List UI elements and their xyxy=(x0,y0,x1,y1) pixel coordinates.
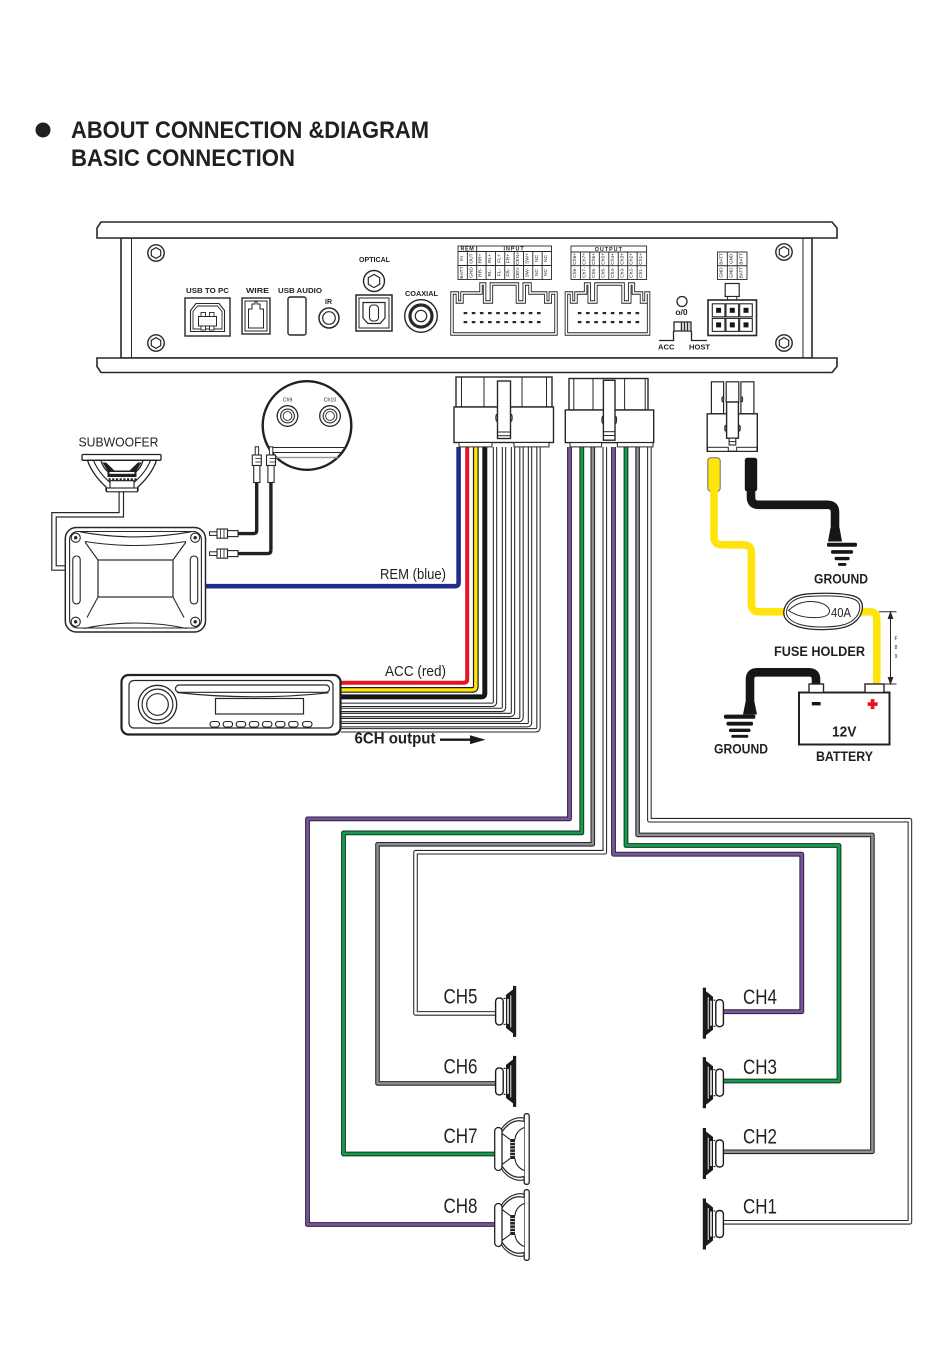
svg-text:Ch7+: Ch7+ xyxy=(582,253,588,265)
svg-text:BATT: BATT xyxy=(719,253,724,265)
wire 6ch white 6 xyxy=(341,447,539,730)
svg-text:IN: IN xyxy=(459,256,465,261)
wire speaker CH1 white xyxy=(649,447,910,1222)
wire speaker CH4 purple xyxy=(614,447,802,1012)
svg-text:Ch6-: Ch6- xyxy=(591,267,597,278)
svg-text:Ch9: Ch9 xyxy=(283,398,293,404)
amplifier body xyxy=(121,238,812,358)
svg-text:REM (blue): REM (blue) xyxy=(380,566,446,583)
yellow wire fuse to battery xyxy=(857,612,877,686)
svg-text:ACC: ACC xyxy=(658,343,675,352)
svg-text:12V: 12V xyxy=(832,724,857,741)
svg-text:CH2: CH2 xyxy=(743,1126,777,1149)
svg-text:Ch4-: Ch4- xyxy=(610,267,616,278)
screw bottom-right xyxy=(776,335,792,351)
wire speaker CH6 gray xyxy=(378,447,593,1083)
svg-text:RL-: RL- xyxy=(487,268,493,276)
wire 6ch white 1 xyxy=(341,447,495,705)
svg-text:Ch10: Ch10 xyxy=(324,398,337,404)
svg-text:SW+: SW+ xyxy=(524,253,530,264)
speaker CH1 xyxy=(703,1199,724,1250)
svg-text:BASIC CONNECTION: BASIC CONNECTION xyxy=(71,145,295,172)
svg-text:BATTERY: BATTERY xyxy=(816,749,873,764)
black wire to right ground xyxy=(751,490,835,529)
svg-text:RR-: RR- xyxy=(478,268,484,277)
svg-text:USB AUDIO: USB AUDIO xyxy=(278,288,323,295)
wire speaker CH5 white xyxy=(416,447,605,1013)
svg-text:40A: 40A xyxy=(831,605,851,620)
svg-text:CH4: CH4 xyxy=(743,986,777,1009)
svg-text:Ch8-: Ch8- xyxy=(572,267,578,278)
svg-text:FR+: FR+ xyxy=(506,254,512,264)
svg-text:6CH output: 6CH output xyxy=(355,731,436,748)
svg-text:USB TO PC: USB TO PC xyxy=(186,288,229,295)
black wire to left ground xyxy=(750,672,816,703)
wire 6ch white 5 xyxy=(341,447,530,725)
svg-text:Ch2+: Ch2+ xyxy=(629,253,635,265)
magnifier circle CH9 CH10 xyxy=(263,381,352,470)
screw top-left xyxy=(148,245,164,261)
svg-text:ABOUT CONNECTION &DIAGRAM: ABOUT CONNECTION &DIAGRAM xyxy=(71,117,429,144)
wire GND black thin xyxy=(341,447,485,697)
svg-text:Ch5+: Ch5+ xyxy=(600,253,606,265)
battery xyxy=(799,684,890,745)
speaker CH2 xyxy=(703,1128,724,1179)
svg-text:o/0: o/0 xyxy=(675,307,688,317)
svg-text:COAXIAL: COAXIAL xyxy=(405,291,439,298)
svg-text:BATT: BATT xyxy=(738,267,743,279)
subwoofer amp box xyxy=(65,528,205,633)
black power sleeve xyxy=(745,458,757,492)
wire 6ch white 4 xyxy=(341,447,522,720)
svg-text:NC: NC xyxy=(534,255,540,263)
svg-text:9: 9 xyxy=(895,654,898,660)
svg-text:NC: NC xyxy=(534,269,540,277)
wire speaker CH2 gray xyxy=(638,447,873,1152)
yellow power wire to fuse xyxy=(714,490,788,612)
svg-text:Ch3+: Ch3+ xyxy=(619,253,625,265)
head unit xyxy=(122,675,341,735)
yellow power sleeve xyxy=(708,458,720,492)
rca plug vertical 2 xyxy=(267,447,276,483)
svg-text:CH6: CH6 xyxy=(444,1056,478,1079)
svg-text:BATT: BATT xyxy=(738,253,743,265)
svg-text:Ch5-: Ch5- xyxy=(600,267,606,278)
svg-text:RR+: RR+ xyxy=(478,253,484,263)
output socket xyxy=(566,284,648,334)
power switch indicator xyxy=(677,297,687,307)
rca plug lower xyxy=(210,549,239,558)
wire BATT yellow thin xyxy=(341,447,476,690)
svg-text:HOST: HOST xyxy=(689,343,710,352)
svg-text:CH3: CH3 xyxy=(743,1056,777,1079)
svg-text:RL+: RL+ xyxy=(487,254,493,263)
wire speaker CH7 green xyxy=(344,447,582,1154)
svg-text:CEN-: CEN- xyxy=(515,266,521,278)
output plug xyxy=(565,379,653,447)
svg-text:NC: NC xyxy=(543,255,549,263)
power pin table xyxy=(718,252,748,280)
svg-text:Ch2-: Ch2- xyxy=(629,267,635,278)
svg-text:SUBWOOFER: SUBWOOFER xyxy=(79,436,159,450)
svg-text:FR-: FR- xyxy=(506,268,512,277)
svg-text:OPTICAL: OPTICAL xyxy=(359,257,391,264)
wire ACC red xyxy=(341,447,467,683)
arrow 6CH output xyxy=(440,739,470,741)
rca plug upper xyxy=(210,529,239,538)
rca cable lower xyxy=(237,482,271,554)
input socket xyxy=(452,284,556,334)
svg-text:Ch8+: Ch8+ xyxy=(572,253,578,265)
svg-text:FUSE HOLDER: FUSE HOLDER xyxy=(774,644,865,659)
svg-text:CH8: CH8 xyxy=(444,1195,478,1218)
left ground symbol xyxy=(724,702,757,738)
speaker CH4 xyxy=(703,988,724,1039)
svg-text:GROUND: GROUND xyxy=(714,742,768,757)
svg-text:REM: REM xyxy=(461,247,475,253)
amplifier bottom flange xyxy=(97,358,837,373)
svg-text:Ch1+: Ch1+ xyxy=(638,253,644,265)
svg-text:FL+: FL+ xyxy=(496,254,502,263)
svg-text:CH1: CH1 xyxy=(743,1196,777,1219)
svg-text:CH7: CH7 xyxy=(444,1125,478,1148)
wire REM blue xyxy=(202,447,459,586)
svg-text:GROUND: GROUND xyxy=(814,572,868,587)
svg-text:F: F xyxy=(894,636,897,642)
fuse holder xyxy=(784,593,863,629)
svg-text:INPUT: INPUT xyxy=(504,247,525,253)
input plug xyxy=(454,377,554,447)
svg-text:GND: GND xyxy=(468,267,474,278)
svg-text:OUT: OUT xyxy=(468,253,474,263)
svg-text:Ch6+: Ch6+ xyxy=(591,253,597,265)
speaker CH6 xyxy=(496,1056,517,1107)
rca plug vertical 1 xyxy=(252,447,261,483)
svg-text:OUTPUT: OUTPUT xyxy=(595,247,623,253)
svg-text:Ch7-: Ch7- xyxy=(582,267,588,278)
svg-text:IR: IR xyxy=(325,299,332,306)
speaker CH7 xyxy=(495,1114,530,1185)
output pin table xyxy=(571,246,647,280)
subwoofer speaker xyxy=(82,455,161,492)
wire 6ch white 2 xyxy=(341,447,504,710)
svg-text:FL-: FL- xyxy=(496,268,502,276)
svg-text:CEN+: CEN+ xyxy=(515,252,521,265)
wire speaker CH8 purple xyxy=(308,447,570,1225)
right ground symbol xyxy=(827,528,857,566)
speaker CH8 xyxy=(495,1190,530,1261)
input pin table xyxy=(458,246,552,280)
screw bottom-left xyxy=(148,335,164,351)
svg-text:GND: GND xyxy=(729,267,734,278)
svg-text:NC: NC xyxy=(543,269,549,277)
svg-text:BATT: BATT xyxy=(459,266,465,278)
svg-text:Ch3-: Ch3- xyxy=(619,267,625,278)
wire 6ch white 3 xyxy=(341,447,513,715)
svg-text:8: 8 xyxy=(895,645,898,651)
switch ACC HOST xyxy=(659,322,707,341)
svg-text:SW-: SW- xyxy=(524,267,530,277)
speaker CH5 xyxy=(496,986,517,1037)
title bullet xyxy=(36,123,51,138)
svg-text:Ch1-: Ch1- xyxy=(638,267,644,278)
dimension line xyxy=(879,612,897,684)
rca cable upper xyxy=(237,482,257,534)
wire subwoofer to amp box xyxy=(54,492,121,568)
svg-text:GND: GND xyxy=(729,253,734,264)
svg-text:WIRE: WIRE xyxy=(246,288,269,295)
svg-text:CH5: CH5 xyxy=(444,986,478,1009)
wire speaker CH3 green xyxy=(626,447,839,1081)
power plug xyxy=(707,382,757,452)
svg-text:Ch4+: Ch4+ xyxy=(610,253,616,265)
svg-text:ACC (red): ACC (red) xyxy=(385,663,446,680)
speaker CH3 xyxy=(703,1057,724,1108)
screw top-right xyxy=(776,244,792,260)
power socket xyxy=(708,284,757,336)
svg-text:GND: GND xyxy=(719,267,724,278)
amplifier top flange xyxy=(97,222,837,238)
